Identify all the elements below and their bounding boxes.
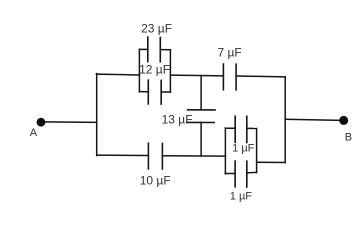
wire 13uF top lead — [200, 76, 202, 110]
wire 1uF-block right bar — [256, 129, 258, 173]
wire right rail — [284, 77, 286, 163]
capacitor C7 1uF bottom right plate — [246, 161, 248, 187]
wire parallel-block right bar — [169, 50, 171, 92]
wire top rail segment 2 — [170, 74, 223, 77]
wire bottom rail segment 2 — [162, 155, 225, 157]
capacitor C1 23uF left plate — [147, 37, 149, 61]
svg-text:7 µF: 7 µF — [217, 46, 241, 60]
wire top 1uF right lead — [247, 127, 257, 129]
svg-text:13 µF: 13 µF — [162, 112, 193, 126]
wire left bus bar — [96, 74, 98, 156]
svg-text:B: B — [345, 132, 352, 144]
wire 1uF-block exit to right rail — [257, 161, 286, 163]
capacitor C6 1uF top right plate — [246, 116, 248, 142]
capacitor C5 13uF top plate — [188, 109, 215, 111]
node B — [339, 116, 348, 125]
wire top rail segment 1 — [96, 73, 139, 76]
wire bottom 1uF right lead — [247, 171, 257, 174]
capacitor C6 1uF top left plate — [234, 116, 236, 142]
wire 12uF right lead — [161, 91, 170, 93]
capacitor C4 10uF right plate — [161, 143, 163, 169]
wire 23uF right lead — [160, 49, 170, 51]
wire 12uF left lead — [139, 91, 148, 93]
svg-text:12 µF: 12 µF — [139, 62, 170, 76]
wire bottom 1uF left lead — [225, 173, 235, 175]
svg-text:1 µF: 1 µF — [230, 190, 253, 202]
svg-text:1 µF: 1 µF — [232, 143, 255, 155]
node A — [37, 118, 46, 127]
svg-text:23 µF: 23 µF — [141, 21, 172, 35]
svg-text:10 µF: 10 µF — [140, 173, 171, 187]
wire bottom rail segment 1 — [97, 154, 149, 156]
wire 1uF-block left bar — [224, 128, 226, 174]
wire top 1uF left lead — [225, 127, 235, 129]
capacitor C3 7uF right plate — [235, 64, 237, 90]
wire 13uF bottom lead — [200, 123, 202, 157]
capacitor C7 1uF bottom left plate — [234, 161, 236, 187]
wire 23uF left lead — [139, 48, 147, 50]
svg-text:A: A — [30, 127, 38, 139]
wire A to left bus — [45, 121, 97, 124]
capacitor C3 7uF left plate — [222, 64, 224, 90]
wire top rail segment 3 — [236, 75, 285, 78]
capacitor C4 10uF left plate — [147, 143, 149, 169]
wire parallel-block left bar — [138, 49, 140, 92]
capacitor C2 12uF right plate — [160, 80, 162, 104]
capacitor C2 12uF left plate — [147, 80, 149, 104]
wire to node B — [285, 119, 341, 120]
capacitor C5 13uF bottom plate — [187, 121, 214, 123]
capacitor C1 23uF right plate — [159, 37, 161, 61]
